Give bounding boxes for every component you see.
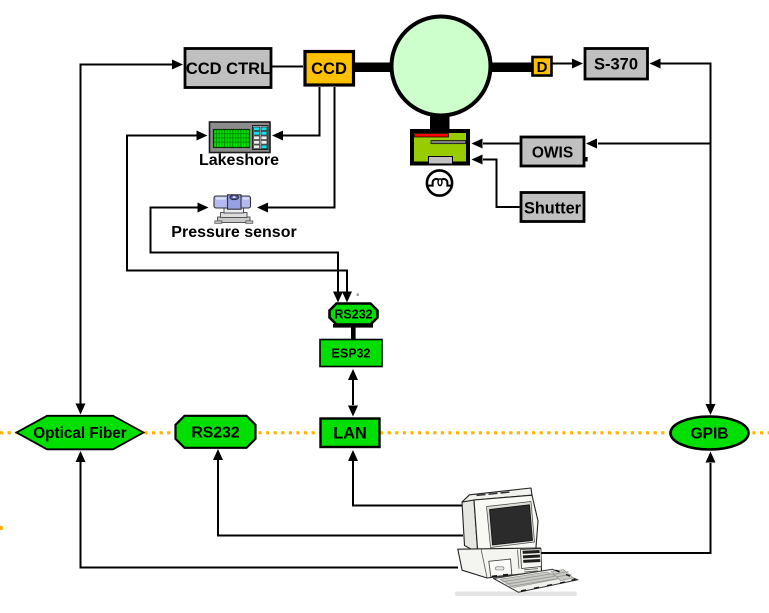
arrowhead into ESP32 bottom <box>348 369 358 380</box>
node GPIB <box>671 417 749 450</box>
svg-text:D: D <box>537 59 548 76</box>
node RS232 (middle octagon) <box>176 416 256 448</box>
wire Shutter to monochromator <box>483 160 520 208</box>
arrowhead into GPIB bottom <box>706 452 716 463</box>
box ESP32 <box>320 340 382 367</box>
node LAN <box>321 419 380 448</box>
base vents <box>524 569 538 572</box>
arrowhead into monochromator from OWIS <box>472 139 483 149</box>
arrowhead into RS232 converter from Pressure line <box>333 292 343 303</box>
bar RS232 to ESP32 <box>351 327 356 340</box>
wire GPIB bus vertical to S-370 <box>660 64 711 405</box>
wire GPIB line to OWIS <box>598 143 711 145</box>
drive bay panel <box>521 549 542 569</box>
base bottom junction ticks <box>492 575 508 577</box>
monitor screen bevel <box>487 502 535 548</box>
svg-text:ESP32: ESP32 <box>332 347 371 361</box>
arrowhead into CCD CTRL <box>172 60 183 70</box>
wire CCD to Pressure sensor <box>268 87 335 208</box>
monitor front bezel <box>474 495 538 553</box>
monitor top vents <box>477 492 510 495</box>
drive bay slots <box>523 550 540 554</box>
stray speck near RS232 converter <box>357 294 359 296</box>
arrowhead into S-370 right <box>650 59 661 69</box>
svg-text:RS232: RS232 <box>191 425 240 442</box>
svg-text:GPIB: GPIB <box>691 426 729 443</box>
monitor left side face <box>462 500 478 553</box>
wire RS232 to computer <box>218 460 463 536</box>
svg-text:LAN: LAN <box>333 425 366 443</box>
arrowhead into RS232 bottom <box>213 449 223 460</box>
computer workstation icon <box>455 488 578 596</box>
shadow under computer <box>455 592 577 597</box>
node Optical Fiber <box>17 416 144 450</box>
net: dotted optical/bus line <box>0 431 769 434</box>
wire D to S-370 <box>553 63 573 65</box>
svg-text:S-370: S-370 <box>594 56 638 74</box>
arrowhead into Lakeshore left <box>197 131 208 141</box>
wire CCD CTRL to CCD <box>272 66 304 68</box>
box Shutter <box>521 193 584 222</box>
wire Lakeshore to RS232 converter <box>127 136 347 293</box>
monochromator red slit <box>415 134 449 138</box>
arrowhead into S-370 left <box>572 59 583 69</box>
svg-text:Optical Fiber: Optical Fiber <box>33 425 127 442</box>
stray mark at OWIS right <box>584 157 588 161</box>
arrowhead into LAN top <box>348 406 358 417</box>
monochromator gray bar <box>431 141 466 144</box>
box D <box>533 57 552 76</box>
keyboard key rows <box>503 572 572 587</box>
converter RS232 (top octagon) <box>330 304 378 328</box>
monochromator exit port <box>429 157 453 165</box>
svg-text:Pressure sensor: Pressure sensor <box>171 224 296 241</box>
wire CCD to Lakeshore <box>283 87 320 136</box>
wire computer to GPIB <box>540 463 711 553</box>
monitor top face <box>462 488 532 502</box>
svg-text:RS232: RS232 <box>334 308 372 322</box>
svg-text:Shutter: Shutter <box>524 200 582 218</box>
monitor screen <box>490 505 533 545</box>
keyboard <box>494 569 578 592</box>
bar chamber to D <box>489 63 533 73</box>
svg-text:OWIS: OWIS <box>532 145 573 162</box>
instrument Pressure sensor icon <box>214 195 253 223</box>
wire LAN to computer <box>353 461 463 506</box>
wire Optical Fiber to CCD CTRL <box>81 65 173 405</box>
arrowhead into Pressure sensor right <box>257 203 268 213</box>
arrowhead into Lakeshore right <box>272 131 283 141</box>
arrowhead into LAN bottom <box>348 450 358 461</box>
monochromator body <box>412 131 468 164</box>
instrument Lakeshore controller icon <box>210 122 271 153</box>
system base unit <box>458 548 542 578</box>
arrowhead into GPIB top <box>706 404 716 415</box>
arrowhead into RS232 converter from Lakeshore line <box>342 292 352 303</box>
wire Optical Fiber to computer <box>81 462 459 568</box>
svg-text:Lakeshore: Lakeshore <box>199 152 279 169</box>
keyboard keys left block <box>500 572 562 588</box>
wire Pressure sensor to RS232 converter <box>151 208 339 293</box>
arrowhead into Pressure sensor left <box>198 203 209 213</box>
stray orange dot <box>0 526 3 530</box>
box S-370 <box>585 49 648 80</box>
pedestal chamber to monochromator <box>430 108 450 130</box>
keyboard keys right block <box>551 570 574 581</box>
wire ESP32 to LAN <box>352 380 354 405</box>
base front/side divider <box>481 549 487 578</box>
arrowhead into OWIS right <box>586 139 597 149</box>
vacuum chamber <box>392 17 491 116</box>
box OWIS <box>521 137 584 166</box>
bar CCD to chamber <box>352 63 392 73</box>
arrowhead into Optical Fiber top <box>76 404 86 415</box>
keyboard edge ticks <box>521 570 576 591</box>
box CCD <box>305 52 354 86</box>
arrowhead into Optical Fiber bottom <box>76 451 86 462</box>
wire OWIS to monochromator <box>483 143 520 145</box>
box CCD CTRL <box>185 49 271 88</box>
svg-text:CCD CTRL: CCD CTRL <box>186 60 270 78</box>
floppy drive <box>489 559 512 577</box>
arrowhead into monochromator from Shutter <box>472 155 483 165</box>
lamp <box>427 170 452 195</box>
svg-text:CCD: CCD <box>311 60 347 78</box>
